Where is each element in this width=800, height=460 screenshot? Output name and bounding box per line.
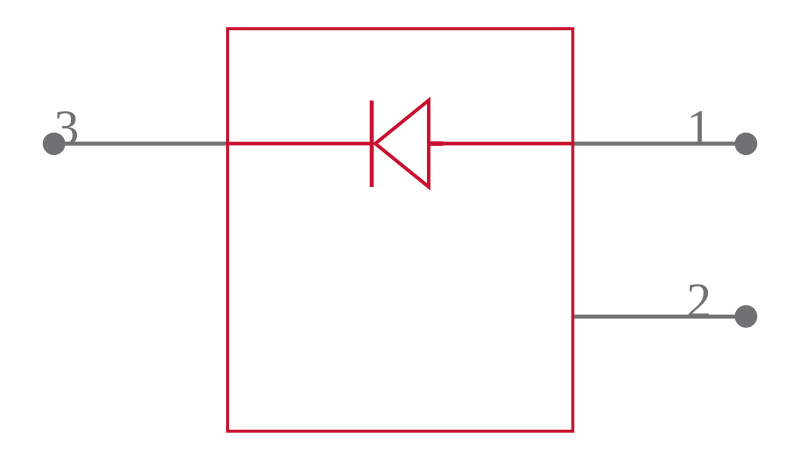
wire anode stub overlap <box>429 141 444 146</box>
node pin 2 terminal dot <box>735 305 758 328</box>
diode D1 cathode bar <box>370 101 374 188</box>
diode D1 triangle (anode, pointing left) <box>375 100 428 187</box>
wire pin 2 lead (gray, right bottom) <box>572 315 746 319</box>
wire internal cathode side (red) <box>226 142 372 146</box>
wire pin 3 lead (gray, left) <box>54 142 228 146</box>
svg-text:2: 2 <box>687 272 712 328</box>
svg-text:1: 1 <box>687 99 712 155</box>
node pin 3 terminal dot <box>43 133 66 156</box>
svg-text:3: 3 <box>54 99 79 155</box>
wire pin 1 lead (gray, right top) <box>572 142 746 146</box>
wire internal anode side (red) <box>429 142 574 146</box>
node pin 1 terminal dot <box>735 133 758 156</box>
component body box U1 <box>228 29 573 432</box>
